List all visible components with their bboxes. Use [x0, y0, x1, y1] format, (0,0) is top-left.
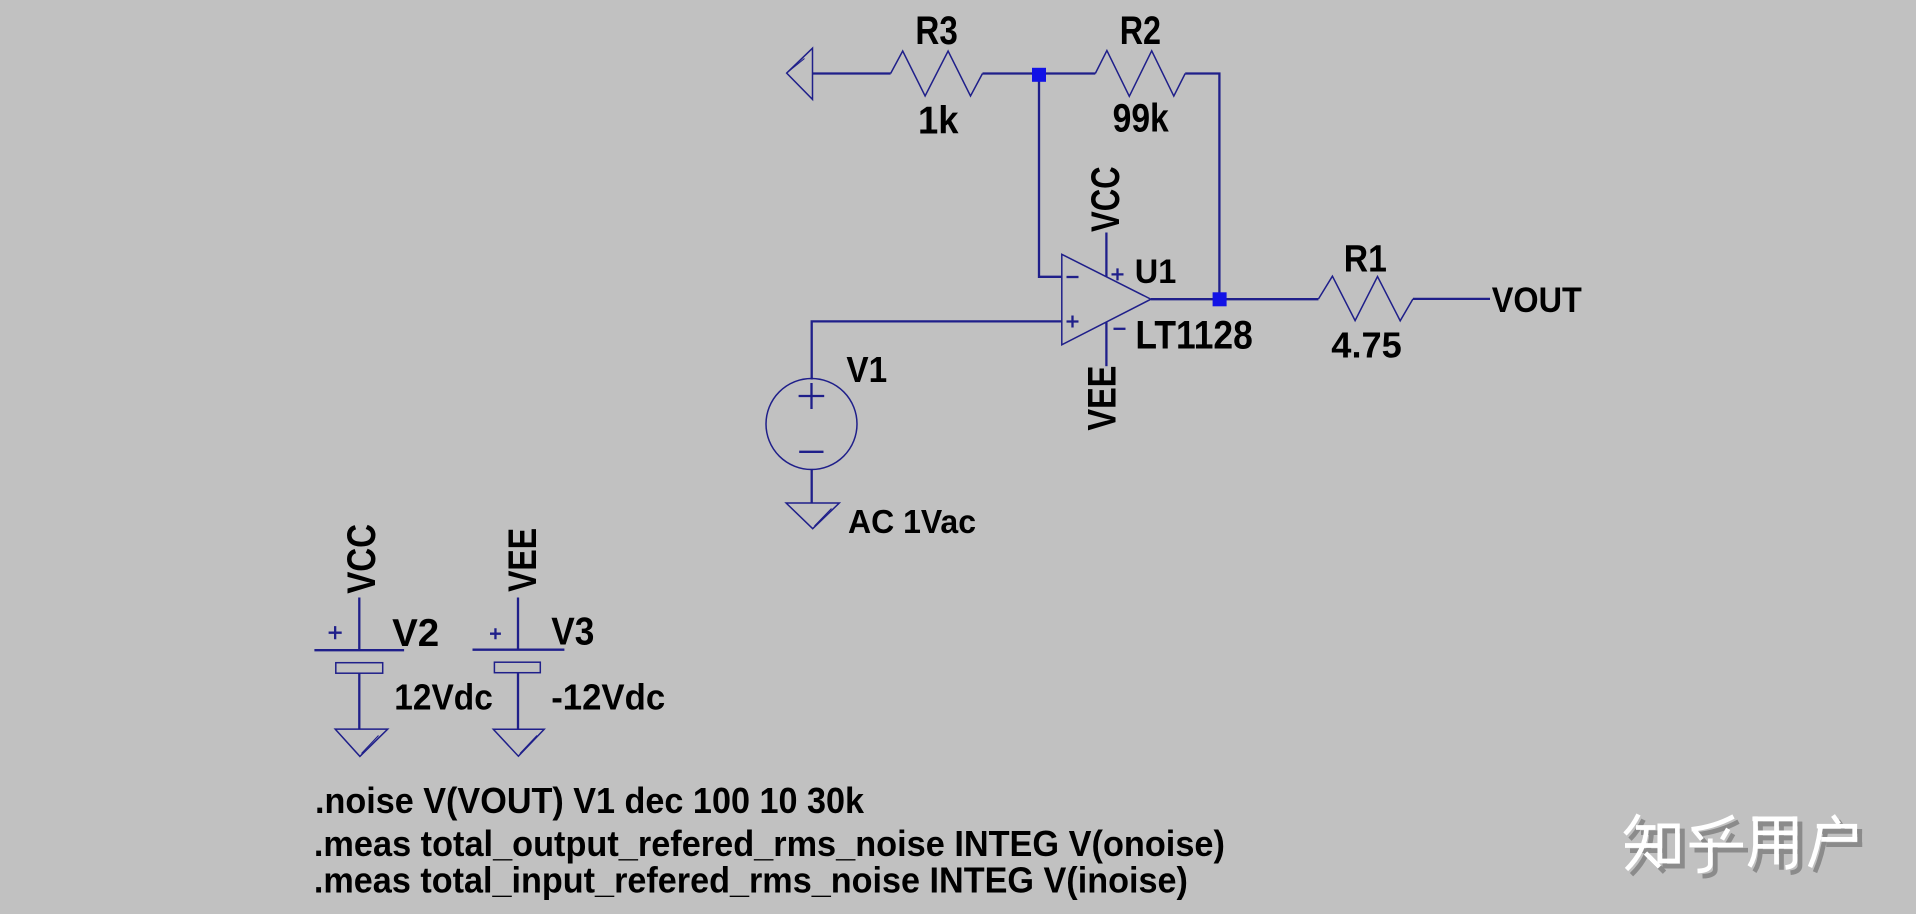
svg-text:V3: V3 [551, 611, 594, 654]
svg-text:R2: R2 [1120, 9, 1161, 53]
svg-text:99k: 99k [1113, 97, 1170, 141]
svg-text:U1: U1 [1135, 253, 1177, 291]
svg-text:-12Vdc: -12Vdc [551, 677, 665, 718]
svg-text:R1: R1 [1344, 239, 1387, 281]
svg-text:V1: V1 [846, 349, 887, 390]
svg-text:V2: V2 [392, 612, 439, 655]
svg-text:.meas total_input_refered_rms_: .meas total_input_refered_rms_noise INTE… [314, 860, 1188, 901]
svg-text:VEE: VEE [501, 528, 545, 592]
svg-text:1k: 1k [918, 100, 959, 143]
svg-text:R3: R3 [915, 9, 957, 53]
svg-text:AC 1Vac: AC 1Vac [848, 503, 976, 540]
svg-text:.meas total_output_refered_rms: .meas total_output_refered_rms_noise INT… [314, 823, 1225, 864]
svg-text:VOUT: VOUT [1492, 281, 1582, 320]
svg-text:12Vdc: 12Vdc [394, 676, 493, 717]
svg-text:VCC: VCC [340, 524, 384, 594]
svg-text:VEE: VEE [1081, 366, 1125, 431]
svg-text:.noise V(VOUT) V1 dec 100 10 3: .noise V(VOUT) V1 dec 100 10 30k [315, 780, 865, 821]
svg-text:VCC: VCC [1084, 166, 1128, 232]
svg-text:LT1128: LT1128 [1135, 314, 1252, 358]
svg-text:4.75: 4.75 [1331, 325, 1402, 366]
